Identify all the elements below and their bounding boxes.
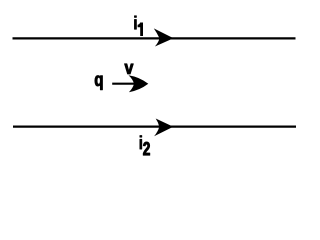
- label i1 : subscript 1: [138, 23, 143, 37]
- label i1 : letter i: [134, 16, 136, 30]
- velocity vector arrowhead: [129, 75, 149, 92]
- wire W1 (top conductor carrying current i1): [13, 37, 296, 39]
- wire W2 (bottom conductor carrying current i2): [13, 125, 296, 127]
- current direction arrowhead on wire W1: [154, 28, 174, 46]
- velocity vector arrow shaft: [112, 83, 138, 85]
- label q (point charge): [95, 76, 103, 90]
- current direction arrowhead on wire W2: [154, 119, 173, 137]
- label v (speed of charge): [125, 64, 134, 74]
- label i2 : subscript 2: [143, 142, 149, 155]
- label i2 : letter i: [140, 135, 142, 149]
